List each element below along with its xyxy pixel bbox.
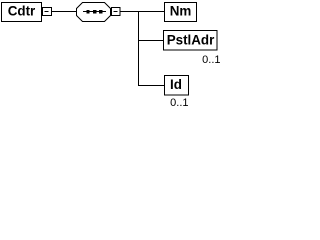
svg-text:0..1: 0..1 xyxy=(170,97,188,109)
svg-text:Nm: Nm xyxy=(170,4,192,19)
svg-text:Id: Id xyxy=(170,77,182,92)
svg-text:PstlAdr: PstlAdr xyxy=(167,32,215,47)
svg-text:Cdtr: Cdtr xyxy=(8,4,36,19)
svg-text:0..1: 0..1 xyxy=(202,54,220,66)
